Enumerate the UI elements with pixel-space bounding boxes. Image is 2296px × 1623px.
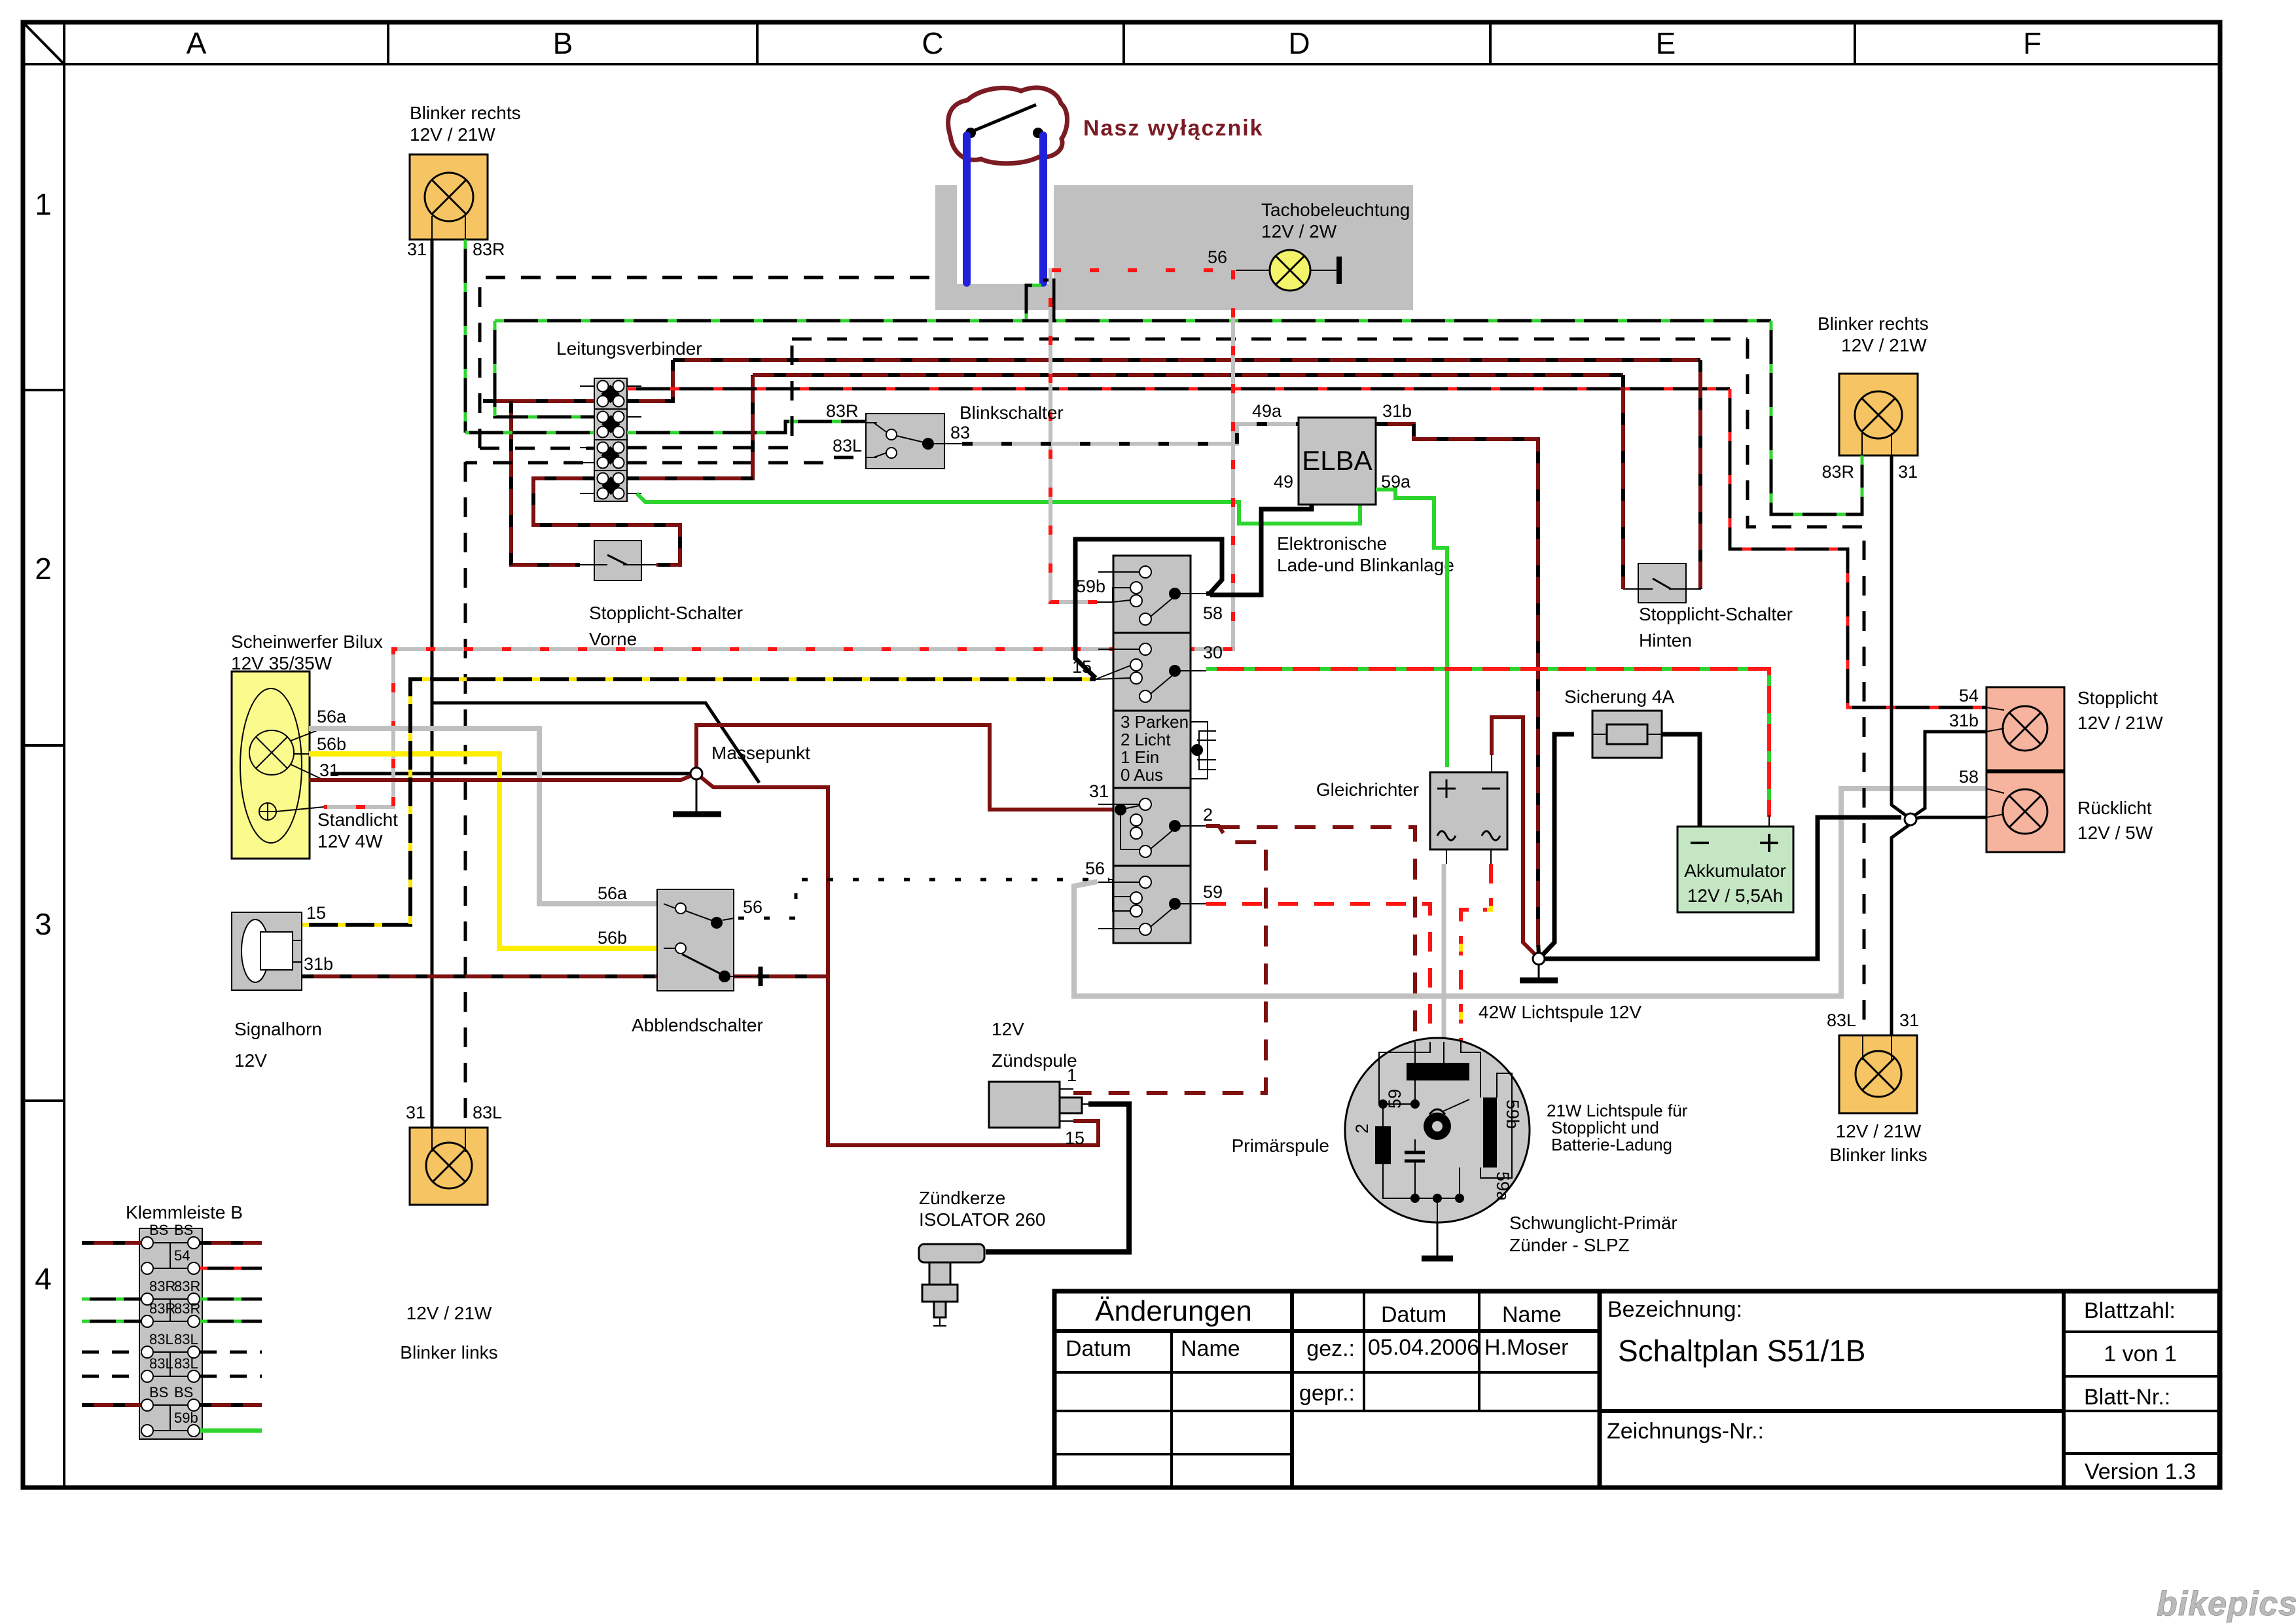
svg-text:Zünder - SLPZ: Zünder - SLPZ <box>1509 1235 1630 1255</box>
svg-text:Standlicht: Standlicht <box>317 810 398 830</box>
svg-text:59a: 59a <box>1493 1171 1513 1202</box>
ignition switch stack S1 <box>1113 556 1191 943</box>
svg-text:gez.:: gez.: <box>1306 1336 1355 1361</box>
svg-text:Blatt-Nr.:: Blatt-Nr.: <box>2084 1385 2170 1410</box>
wire ELBA 31b maroon-black to junction rail <box>1376 424 1539 954</box>
wire row5 right black dashed riser to bus L2 <box>627 339 792 448</box>
svg-text:Abblendschalter: Abblendschalter <box>632 1015 763 1035</box>
wire ELBA 59a green stub to rectifier plus <box>1376 490 1447 767</box>
svg-text:56: 56 <box>1208 247 1227 267</box>
wire row3 green-black riser from bus L1 <box>495 321 594 417</box>
svg-text:83R: 83R <box>473 240 505 259</box>
title block table <box>1054 1291 2219 1488</box>
svg-text:Scheinwerfer Bilux: Scheinwerfer Bilux <box>231 632 383 652</box>
svg-text:Gleichrichter: Gleichrichter <box>1316 779 1419 800</box>
svg-text:83L: 83L <box>473 1103 502 1122</box>
svg-text:Massepunkt: Massepunkt <box>711 743 810 763</box>
svg-text:83R: 83R <box>149 1300 175 1317</box>
wire 31 branch diagonal to ground net <box>432 703 759 783</box>
ignition switch position text <box>1121 712 1189 785</box>
ignition switch 59b bracket (section 1) <box>1097 588 1130 602</box>
Klemmleiste B internal links <box>147 1243 194 1431</box>
svg-text:31: 31 <box>319 760 339 780</box>
svg-text:12V 35/35W: 12V 35/35W <box>231 653 332 673</box>
flywheel junction dots <box>1378 1099 1388 1109</box>
wire 59 red dashed: switch to flywheel <box>1206 904 1430 1042</box>
svg-text:56: 56 <box>1085 859 1105 878</box>
svg-text:12V / 5W: 12V / 5W <box>2077 823 2153 843</box>
svg-text:2: 2 <box>35 552 52 586</box>
svg-text:Blinker rechts: Blinker rechts <box>1818 313 1929 334</box>
flywheel ground <box>1422 1222 1453 1258</box>
svg-text:Klemmleiste B: Klemmleiste B <box>126 1202 243 1222</box>
svg-text:12V / 5,5Ah: 12V / 5,5Ah <box>1687 885 1783 906</box>
tacho lamp L2 <box>1236 250 1339 291</box>
ignition switch section 15/30 contacts <box>1098 649 1206 694</box>
wire 83L black dashed vertical from connector row6 to B4 <box>464 462 467 1128</box>
svg-text:83R: 83R <box>149 1278 175 1294</box>
svg-text:59b: 59b <box>174 1410 198 1426</box>
svg-text:83L: 83L <box>833 436 862 455</box>
svg-text:83R: 83R <box>174 1300 200 1317</box>
wire 2 maroon dashed: switch to flywheel and Zuendspule branch <box>1073 826 1266 1093</box>
wire row4 right green-black to Blinkschalter 83R <box>627 421 866 433</box>
svg-text:BS: BS <box>149 1384 168 1400</box>
Stopplicht-Schalter Vorne S2 <box>580 541 656 580</box>
svg-text:3: 3 <box>35 907 52 941</box>
wire 30 red-green to battery plus <box>1206 669 1769 817</box>
ELBA box U1 <box>1299 418 1376 505</box>
svg-text:12V: 12V <box>234 1050 267 1071</box>
svg-text:Primärspule: Primärspule <box>1232 1135 1329 1156</box>
switch blob lever <box>973 105 1036 131</box>
svg-text:Stopplicht-Schalter: Stopplicht-Schalter <box>589 603 743 623</box>
wire 31 black junction2 down to Blinker links F <box>1892 824 1910 1035</box>
svg-text:83L: 83L <box>1827 1010 1856 1030</box>
svg-text:59: 59 <box>1203 882 1223 902</box>
Gleichrichter rectifier box V1 <box>1430 755 1507 864</box>
wire row5 black dashed from 56 riser <box>480 447 594 450</box>
ignition switch section 56/59 contacts <box>1098 882 1206 927</box>
svg-text:Blattzahl:: Blattzahl: <box>2084 1298 2176 1323</box>
connector X1 contacts <box>598 381 624 499</box>
bus L1 green-black 83R horizontal <box>495 319 1771 323</box>
svg-text:58: 58 <box>1959 767 1979 787</box>
wire 31b black Stopplicht to junction2 <box>1914 732 1986 815</box>
ignition switch 56 bracket (section 5) <box>1098 880 1139 929</box>
svg-text:54: 54 <box>1959 686 1979 705</box>
wire row6 right black dashed to Blinkschalter 83L <box>627 457 866 463</box>
svg-text:C: C <box>922 26 943 60</box>
svg-text:BS: BS <box>174 1222 193 1238</box>
svg-text:Leitungsverbinder: Leitungsverbinder <box>556 338 702 359</box>
svg-text:42W Lichtspule 12V: 42W Lichtspule 12V <box>1479 1002 1641 1022</box>
bus L2 black dashed 83L-rear horizontal <box>792 338 1748 341</box>
svg-text:31: 31 <box>1089 781 1109 801</box>
svg-text:Stopplicht: Stopplicht <box>2077 688 2158 708</box>
svg-text:56: 56 <box>743 897 762 917</box>
wire 83 gray-black to ELBA 49a <box>962 424 1299 444</box>
wire 58 gray: switch to Ruecklicht <box>1074 789 1986 996</box>
wire row6 black dashed from 83L vertical <box>465 461 594 465</box>
svg-text:Zeichnungs-Nr.:: Zeichnungs-Nr.: <box>1607 1419 1764 1444</box>
flywheel internal outline <box>1379 1042 1512 1222</box>
svg-text:31b: 31b <box>1949 711 1979 730</box>
svg-text:Rücklicht: Rücklicht <box>2077 798 2152 818</box>
grid row numbers <box>35 187 52 1296</box>
wire 83R green-black bus to Blinker rechts E <box>1771 321 1862 514</box>
wire black from right blue wire down to bus L1 <box>1043 280 1054 321</box>
svg-text:30: 30 <box>1203 643 1223 662</box>
svg-text:Datum: Datum <box>1381 1302 1446 1327</box>
Abblendschalter S4 <box>657 889 761 991</box>
svg-text:Änderungen: Änderungen <box>1095 1295 1252 1327</box>
wire 31b maroon-black Signalhorn to Abblendschalter and riser <box>302 974 828 978</box>
wire 54 black-red bus to Stopplicht lamp <box>1730 389 1986 707</box>
svg-text:B: B <box>553 26 573 60</box>
blue wire right of added switch <box>1039 135 1047 283</box>
wire row7 right maroon-black riser to bus <box>627 375 753 478</box>
svg-text:31b: 31b <box>304 954 333 974</box>
Leitungsverbinder connector block X1 <box>594 378 627 501</box>
svg-text:E: E <box>1656 26 1676 60</box>
wire 59b gray-red: switch to tacho lamp riser <box>1050 270 1233 602</box>
svg-text:59: 59 <box>1385 1089 1405 1109</box>
svg-text:59b: 59b <box>1076 577 1105 596</box>
svg-text:Zündspule: Zündspule <box>992 1050 1077 1071</box>
wire row2 maroon-black left (to Stopplicht-Schalter Vorne) <box>483 399 511 403</box>
wire ELBA 49 black to switch 58 <box>1210 505 1312 595</box>
svg-text:Vorne: Vorne <box>589 629 637 649</box>
wire 59b gray-red: tacho drop to Standlicht <box>324 270 1233 807</box>
wire 56a gray headlight to Abblendschalter <box>309 728 657 904</box>
connector X1 pin stubs <box>580 386 641 493</box>
hand-drawn switch blob Nasz wylacznik <box>948 88 1067 164</box>
svg-text:1 von 1: 1 von 1 <box>2104 1342 2177 1366</box>
svg-text:gepr.:: gepr.: <box>1299 1381 1355 1406</box>
svg-text:Sicherung 4A: Sicherung 4A <box>1564 687 1674 707</box>
svg-text:0 Aus: 0 Aus <box>1121 765 1163 785</box>
svg-text:Blinker rechts: Blinker rechts <box>410 103 521 123</box>
flywheel capacitor <box>1405 1139 1425 1198</box>
svg-text:15: 15 <box>306 903 326 923</box>
svg-text:Lade-und Blinkanlage: Lade-und Blinkanlage <box>1277 555 1454 575</box>
svg-text:Datum: Datum <box>1066 1336 1131 1361</box>
wire 56 black dashed riser x731 <box>480 277 967 448</box>
wire 31 black into Massepunkt node <box>331 772 691 776</box>
svg-text:Signalhorn: Signalhorn <box>234 1019 322 1039</box>
svg-text:1 Ein: 1 Ein <box>1121 747 1159 767</box>
svg-text:05.04.2006: 05.04.2006 <box>1368 1335 1479 1360</box>
svg-text:31b: 31b <box>1382 401 1412 421</box>
svg-text:1: 1 <box>35 187 52 221</box>
wire 31 black from E blinker down to junction2 <box>1892 455 1906 815</box>
wire black junction to Ruecklicht 31 <box>1539 817 1901 959</box>
svg-text:49a: 49a <box>1252 401 1282 421</box>
svg-text:Zündkerze: Zündkerze <box>919 1188 1005 1208</box>
svg-text:12V / 21W: 12V / 21W <box>410 124 495 145</box>
svg-text:56b: 56b <box>598 928 627 948</box>
Scheinwerfer Bilux headlight E1 <box>232 671 324 859</box>
Massepunkt node circle <box>691 768 702 779</box>
svg-text:D: D <box>1288 26 1310 60</box>
Schwunglicht flywheel magneto <box>1345 1038 1530 1222</box>
svg-text:83R: 83R <box>174 1278 200 1294</box>
svg-text:2 Licht: 2 Licht <box>1121 730 1171 749</box>
svg-text:15: 15 <box>1065 1128 1085 1148</box>
Klemmleiste B terminal strip <box>139 1228 202 1439</box>
Ruecklicht lamp E3 <box>1986 772 2064 852</box>
svg-text:Schwunglicht-Primär: Schwunglicht-Primär <box>1509 1213 1677 1233</box>
flywheel coil 59b <box>1483 1097 1497 1168</box>
svg-text:2: 2 <box>1203 805 1213 825</box>
svg-text:ELBA: ELBA <box>1302 445 1372 476</box>
svg-text:Tachobeleuchtung: Tachobeleuchtung <box>1261 200 1410 220</box>
ignition switch section 31/2 contacts <box>1098 804 1206 849</box>
svg-text:12V: 12V <box>992 1019 1024 1039</box>
wire black loop 15 to 58 <box>1075 539 1222 678</box>
svg-text:Blinkschalter: Blinkschalter <box>960 402 1064 423</box>
svg-text:12V / 21W: 12V / 21W <box>406 1303 492 1323</box>
svg-text:A: A <box>187 26 207 60</box>
svg-text:4: 4 <box>35 1262 52 1296</box>
Blinker rechts top-left lamp B1 <box>410 154 488 240</box>
svg-text:ISOLATOR 260: ISOLATOR 260 <box>919 1209 1046 1230</box>
Klemmleiste B stub wires <box>82 1241 141 1245</box>
svg-text:BS: BS <box>174 1384 193 1400</box>
wire green-black jog at switch notch <box>1026 285 1041 319</box>
svg-text:BS: BS <box>149 1222 168 1238</box>
svg-text:83L: 83L <box>149 1355 173 1372</box>
wire rectifier minus maroon to junction <box>1492 717 1536 955</box>
svg-text:12V / 2W: 12V / 2W <box>1261 221 1337 241</box>
wire 56 dotted to ignition switch <box>738 880 1109 918</box>
svg-text:56a: 56a <box>317 707 347 726</box>
wire BS bus L4 drop to Hinten left <box>1621 375 1625 589</box>
wire BS bus L3 drop to Hinten right <box>1698 360 1702 589</box>
wire 83L dashed bus to Blinker links F <box>1748 339 1864 1035</box>
ground junction node near flywheel <box>1520 963 1558 980</box>
Zuendspule ignition coil T1 <box>989 1082 1088 1128</box>
wire 56b yellow headlight to Abblendschalter <box>309 754 657 948</box>
switch blob contact dots <box>965 128 976 138</box>
svg-text:Version 1.3: Version 1.3 <box>2085 1459 2196 1484</box>
svg-text:31: 31 <box>406 1103 425 1122</box>
svg-text:58: 58 <box>1203 603 1223 623</box>
svg-text:83R: 83R <box>1821 462 1854 482</box>
svg-text:54: 54 <box>174 1247 190 1264</box>
svg-text:83L: 83L <box>174 1355 198 1372</box>
svg-text:Batterie-Ladung: Batterie-Ladung <box>1551 1135 1672 1154</box>
Stopplicht lamp E2 <box>1986 687 2064 770</box>
bus L3 maroon-black BS horizontal <box>673 358 1700 362</box>
svg-text:59b: 59b <box>1503 1099 1522 1129</box>
svg-text:2: 2 <box>1352 1124 1372 1133</box>
svg-text:Stopplicht-Schalter: Stopplicht-Schalter <box>1639 604 1793 624</box>
wire 58 black thick: ELBA49 vertical already; switch 58 stub joined <box>1206 592 1214 596</box>
svg-text:12V / 21W: 12V / 21W <box>1841 335 1927 355</box>
svg-text:Elektronische: Elektronische <box>1277 533 1387 554</box>
svg-text:Bezeichnung:: Bezeichnung: <box>1607 1297 1742 1322</box>
ignition switch 15 bracket (section 2) <box>1096 666 1130 679</box>
junction2 node circle <box>1905 813 1916 825</box>
flywheel ignition cam <box>1424 1099 1469 1140</box>
label 21W Lichtspule fuer Stopplicht und Batterie-Ladung <box>1547 1101 1688 1154</box>
wire 2 maroon dashed upper branch to flywheel <box>1219 827 1415 1042</box>
svg-text:12V / 21W: 12V / 21W <box>2077 713 2163 733</box>
wire 31 maroon headlight to Massepunkt <box>309 774 696 780</box>
svg-text:83L: 83L <box>174 1331 198 1347</box>
svg-text:Blinker links: Blinker links <box>1829 1145 1927 1165</box>
wire row8 green to ELBA 59a <box>637 493 1360 524</box>
svg-text:Schaltplan S51/1B: Schaltplan S51/1B <box>1618 1334 1866 1368</box>
svg-text:F: F <box>2023 26 2041 60</box>
svg-text:15: 15 <box>1072 657 1092 677</box>
Blinker links F lamp <box>1839 1035 1917 1113</box>
ignition switch actuator bracket <box>1191 722 1216 779</box>
svg-text:H.Moser: H.Moser <box>1484 1335 1568 1360</box>
wire fuse right black to battery minus <box>1662 734 1700 827</box>
svg-text:83R: 83R <box>826 401 859 421</box>
wire row7 maroon-black left loop to Stopplicht-Schalter Vorne right <box>533 478 680 565</box>
svg-text:31: 31 <box>407 240 427 259</box>
wire 31 left vertical (blinker B1 to blinker B4) <box>431 240 434 1128</box>
svg-text:Blinker links: Blinker links <box>400 1342 497 1363</box>
Signalhorn H1 <box>232 912 302 990</box>
wire 15 black-yellow: riser and run to ignition switch <box>301 679 1096 925</box>
svg-text:56a: 56a <box>598 883 628 903</box>
Zuendkerze spark plug <box>919 1244 984 1326</box>
Akkumulator battery G1 <box>1677 815 1793 912</box>
ignition switch 31 entry dot and bracket (section 4) <box>1115 804 1139 849</box>
wire 83R green-black vertical from B1 to connector row4 <box>464 240 467 433</box>
flywheel coil 59 <box>1407 1063 1469 1080</box>
wire 83R stub under E blinker <box>1861 455 1864 488</box>
svg-text:83: 83 <box>950 423 970 442</box>
svg-text:Nasz wyłącznik: Nasz wyłącznik <box>1083 116 1264 141</box>
Sicherung fuse F1 <box>1592 711 1662 758</box>
gray instrument panel background (Tacho area) <box>935 185 1413 310</box>
wire rectifier AC right red-yellow to flywheel <box>1461 864 1491 1042</box>
svg-text:3 Parken: 3 Parken <box>1121 712 1189 732</box>
svg-text:bikepics: bikepics <box>2157 1585 2296 1623</box>
svg-text:Name: Name <box>1502 1302 1562 1327</box>
Stopplicht-Schalter Hinten S5 <box>1623 563 1701 603</box>
svg-text:83L: 83L <box>149 1331 173 1347</box>
wire Zuendspule HT black to spark plug <box>986 1104 1129 1252</box>
ignition switch section 58 contacts <box>1098 572 1206 616</box>
svg-text:1: 1 <box>1067 1065 1077 1085</box>
svg-text:Akkumulator: Akkumulator <box>1684 861 1786 881</box>
svg-text:Name: Name <box>1181 1336 1240 1361</box>
svg-text:31: 31 <box>1899 1010 1919 1030</box>
wire row4 green-black from 83R vertical <box>465 431 594 435</box>
svg-text:12V 4W: 12V 4W <box>317 831 383 851</box>
grid column letters <box>187 26 2041 60</box>
svg-text:12V / 21W: 12V / 21W <box>1836 1121 1922 1141</box>
svg-text:49: 49 <box>1274 472 1293 491</box>
white cutout around added switch wires <box>957 185 1054 284</box>
Blinker rechts E lamp <box>1839 374 1918 455</box>
Blinkschalter S3 <box>866 414 962 469</box>
svg-text:31: 31 <box>1898 462 1918 482</box>
bus L4 maroon-black BS2 horizontal <box>753 373 1623 377</box>
wire row2 right maroon-black riser to bus <box>627 360 673 401</box>
svg-text:56b: 56b <box>317 734 346 754</box>
wire rectifier AC left gray to flywheel <box>1442 864 1446 1042</box>
wire Massepunkt maroon to ignition switch 31 <box>696 725 1113 810</box>
Massepunkt ground node <box>673 778 721 814</box>
svg-text:Hinten: Hinten <box>1639 630 1692 651</box>
wire fuse left black to junction <box>1542 734 1574 955</box>
Klemmleiste B terminal labels <box>149 1222 200 1426</box>
blue wire left of added switch <box>963 135 971 283</box>
wire Massepunkt maroon branch to 31b rail and Zuendspule 15 <box>696 774 1098 1145</box>
wire 31 black junction2 to Ruecklicht <box>1910 817 1986 819</box>
Klemmleiste B terminals <box>141 1237 200 1436</box>
flywheel primary coil 2 <box>1375 1126 1391 1164</box>
Blinker links B4 lamp (bottom-left) <box>410 1128 488 1205</box>
bus L5 black-red 54 horizontal <box>627 387 1730 391</box>
